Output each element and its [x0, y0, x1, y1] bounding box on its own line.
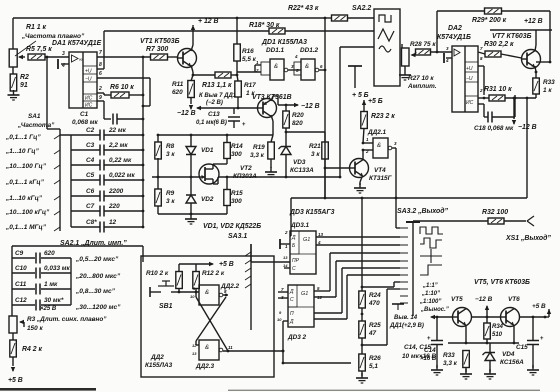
node DD2.1 in1	[362, 142, 365, 145]
wire С5 right	[104, 179, 143, 181]
wire C1 left	[104, 118, 111, 120]
wire C18 riser	[514, 95, 516, 117]
svg-text:С8*: С8*	[86, 219, 97, 226]
wire tap2 up	[386, 289, 388, 345]
wire dur frame top	[12, 245, 143, 247]
wire R4 bottom	[12, 357, 14, 366]
wire C1 right	[117, 118, 143, 120]
node out rail	[526, 97, 529, 100]
svg-text:4: 4	[445, 58, 449, 63]
svg-text:300: 300	[231, 151, 242, 158]
svg-text:Д: Д	[289, 289, 294, 295]
capacitor С7	[100, 206, 104, 217]
wire cap left bus	[70, 135, 72, 227]
resistor R7	[151, 54, 168, 60]
wire row135	[158, 134, 273, 136]
svg-text:ДД2: ДД2	[150, 354, 164, 361]
svg-text:R12 2 к: R12 2 к	[202, 270, 225, 277]
resistor R12	[193, 272, 200, 289]
common bar below SA2.2	[348, 65, 362, 67]
resistor R24	[359, 291, 366, 308]
wire pulse into DD3.1	[290, 235, 291, 237]
node -12 row	[486, 316, 489, 319]
wire SA1 common riser	[46, 57, 48, 129]
wire R16 bottom	[236, 61, 238, 75]
wire С10 right	[41, 272, 71, 274]
wire VT3 em row2	[277, 96, 279, 105]
potentiometer R1	[9, 49, 17, 67]
svg-text:КС156А: КС156А	[500, 359, 524, 366]
capacitor C15	[527, 341, 539, 345]
wire tap2	[362, 344, 387, 346]
ground C14	[431, 365, 443, 375]
svg-text:3,3 к: 3,3 к	[250, 152, 265, 159]
wire R14 bottom	[226, 158, 228, 164]
svg-text:„0,5...20 мкс”: „0,5...20 мкс”	[75, 256, 119, 263]
contact SA3.2-10	[400, 295, 408, 297]
wire DA1 pin2	[97, 92, 104, 94]
offpage arrow VT5 base	[430, 315, 435, 319]
contact SA3.2-1	[400, 227, 408, 229]
wire R16 drop	[236, 18, 238, 44]
potentiometer R27	[402, 48, 410, 66]
wire DD3.1 out2	[316, 244, 400, 246]
svg-text:−12 В: −12 В	[475, 296, 493, 303]
wire C1 to bus	[142, 95, 144, 119]
transistor VT2	[199, 164, 219, 184]
wire С3 right	[104, 149, 143, 151]
wire К выв7	[198, 107, 238, 109]
wire R21 bottom	[324, 159, 326, 168]
logic gate DD2.2	[199, 285, 223, 305]
svg-text:R9: R9	[166, 190, 175, 197]
svg-text:−U: −U	[85, 77, 92, 83]
wire mid row right	[218, 176, 340, 178]
svg-text:G1: G1	[303, 237, 310, 243]
wire R21 top	[324, 132, 326, 142]
wire С4 right	[104, 164, 143, 166]
svg-text:К Выв 7 ДД1: К Выв 7 ДД1	[199, 93, 237, 99]
wire R8 top	[157, 135, 159, 142]
svg-text:ИС: ИС	[85, 96, 93, 102]
logic gate DD2.3	[199, 340, 223, 360]
node R20 top	[285, 104, 288, 107]
svg-text:R17: R17	[244, 82, 256, 89]
svg-text:ДD1 К155ЛА3: ДD1 К155ЛА3	[261, 39, 307, 46]
svg-text:2: 2	[98, 86, 102, 92]
wire pin6 drop	[149, 78, 151, 106]
node feedback	[142, 56, 145, 59]
wire pin2 jog	[103, 93, 105, 95]
wire С11 right	[41, 288, 71, 290]
wire tap1	[362, 286, 394, 288]
node cap bus top	[142, 118, 145, 121]
svg-text:R16: R16	[242, 48, 254, 55]
wire R17 bottom	[237, 97, 239, 108]
switch SA2.2 box	[374, 9, 400, 86]
contact SA1-3	[54, 165, 60, 169]
svg-text:К155ЛА3: К155ЛА3	[145, 362, 173, 369]
wire VD2 top	[190, 177, 192, 195]
wire ladder5 riser	[341, 268, 343, 313]
svg-text:VD4: VD4	[502, 351, 515, 358]
svg-text:30 мк*: 30 мк*	[44, 297, 64, 304]
wire DD3.1 in2	[280, 243, 290, 245]
svg-text:С1: С1	[80, 111, 89, 118]
svg-text:R10 2 к: R10 2 к	[146, 270, 169, 277]
power -12V out stage	[485, 305, 489, 311]
svg-text:13: 13	[283, 255, 288, 260]
svg-text:С11: С11	[15, 281, 27, 288]
ground C15	[527, 365, 539, 375]
resistor R19	[268, 142, 275, 159]
switch SA1 line	[59, 129, 61, 231]
node С3 bus	[142, 149, 145, 152]
svg-text:5,5 к: 5,5 к	[242, 56, 257, 63]
ground below R2	[8, 90, 20, 100]
ground R27	[399, 70, 411, 80]
svg-text:0,068 мк: 0,068 мк	[72, 119, 98, 126]
diode VD1	[186, 147, 196, 155]
op-amp DA1	[69, 52, 97, 109]
wire SA3.1 top	[250, 244, 252, 262]
svg-text:620: 620	[172, 89, 183, 96]
wire R3-R4	[12, 333, 14, 340]
svg-text:С7: С7	[86, 203, 95, 210]
wire R27 bottom	[404, 66, 406, 70]
svg-text:П: П	[290, 311, 294, 317]
svg-text:47: 47	[368, 330, 377, 337]
svg-text:+ 5 Б: + 5 Б	[352, 92, 369, 99]
wire SA1 arm top	[47, 128, 60, 130]
wire ladder6	[347, 274, 400, 276]
transistor VT1	[178, 49, 197, 68]
wire С6 right	[104, 195, 143, 197]
wire R20 top	[285, 105, 287, 111]
node R16 top	[236, 17, 239, 20]
power -12V below R11	[189, 105, 193, 110]
svg-text:ИС: ИС	[85, 103, 93, 109]
svg-text:С9: С9	[15, 250, 24, 257]
wire R19 bottom	[270, 159, 272, 168]
resistor R10	[176, 272, 183, 289]
wire DD2.2 out	[223, 294, 228, 296]
power -12V VT3	[278, 103, 299, 107]
svg-text:С15: С15	[516, 344, 528, 351]
svg-text:+: +	[427, 336, 431, 342]
svg-text:SA2.2: SA2.2	[352, 5, 371, 12]
wire DD3.2 in1	[278, 291, 288, 293]
svg-text:R15: R15	[231, 190, 243, 197]
svg-text:R32 100: R32 100	[482, 209, 508, 216]
svg-text:DA2: DA2	[448, 25, 462, 32]
svg-text:VD3: VD3	[293, 159, 306, 166]
wire C13 stem	[233, 108, 235, 114]
svg-text:С18 0,068 мк: С18 0,068 мк	[474, 125, 514, 132]
wire R13 right	[231, 74, 237, 76]
power +5V R4	[11, 367, 15, 372]
wire DD3.2 pinD drop	[282, 321, 284, 363]
wire bottom row VD2	[158, 213, 227, 215]
wire R32 right	[504, 220, 526, 222]
svg-text:+: +	[540, 336, 544, 342]
wire VT6 emitter drop	[513, 325, 515, 343]
node DD2.3 out row	[282, 350, 285, 353]
contact SA3.1-4	[245, 276, 251, 280]
capacitor С10	[36, 268, 40, 279]
svg-text:ДД2.3: ДД2.3	[195, 363, 215, 370]
wire С11 left	[12, 288, 35, 290]
node R14 top	[226, 134, 229, 137]
node DD1.2 out	[324, 69, 327, 72]
switch SA3.2 common bar	[406, 221, 420, 223]
node R25/R26	[361, 344, 364, 347]
svg-text:150 к: 150 к	[27, 325, 43, 332]
wire cross A2	[195, 292, 197, 297]
wire R29 right riser	[549, 11, 551, 62]
svg-text:ДD3 К155АГ3: ДD3 К155АГ3	[289, 209, 335, 216]
svg-text:−12 В: −12 В	[301, 103, 320, 110]
contact SA3.2-7	[400, 274, 408, 276]
svg-text:&: &	[205, 290, 209, 296]
svg-text:10: 10	[277, 317, 282, 322]
wire pulse drop to DD3.1	[290, 198, 292, 236]
wire DA2 pin4	[446, 57, 452, 59]
node С4 bus	[142, 164, 145, 167]
svg-text:4: 4	[294, 54, 298, 59]
node VT4 base	[324, 167, 327, 170]
wire R28 left	[415, 52, 417, 55]
svg-text:10: 10	[190, 294, 195, 299]
svg-text:+5 В: +5 В	[532, 303, 546, 310]
power +5V out	[547, 309, 551, 314]
wire R23 bottom	[363, 128, 364, 143]
wire VT3 em row	[273, 95, 278, 97]
svg-text:12: 12	[192, 343, 197, 348]
svg-text:+U: +U	[466, 66, 473, 72]
svg-text:R7 300: R7 300	[146, 46, 168, 53]
svg-text:510: 510	[492, 332, 503, 338]
wire to DD1 pin1	[254, 65, 256, 72]
contact SA3.2-6	[400, 267, 408, 269]
wire dur arm	[142, 246, 144, 262]
svg-text:&: &	[305, 64, 309, 70]
wire R15 bottom	[226, 206, 228, 214]
wire DD2.1 out drop	[395, 148, 397, 198]
node pin6 bus	[142, 105, 145, 108]
wire DD3.1 R pin	[284, 267, 290, 269]
wire tap1 h	[394, 281, 400, 283]
resistor R33a	[533, 78, 540, 94]
svg-text:300: 300	[231, 198, 242, 205]
switch SA3.2 arm	[412, 222, 414, 316]
transistor VT3	[258, 99, 277, 118]
node R5/SA1	[46, 56, 49, 59]
wire VT5 emitter drop	[465, 325, 467, 343]
svg-text:2: 2	[479, 88, 483, 93]
icon output cross	[420, 249, 442, 263]
wire R31 row	[478, 97, 489, 99]
wire +5 stem	[354, 66, 356, 88]
svg-text:ИС: ИС	[466, 100, 474, 106]
wire DD3.2 to ladder4	[335, 261, 337, 297]
wire pulse stub	[396, 227, 400, 229]
svg-text:VT4: VT4	[374, 167, 386, 174]
wire R18 left	[104, 30, 269, 32]
contact SA1-1	[54, 135, 60, 139]
svg-text:„10...100 кГц”: „10...100 кГц”	[5, 209, 50, 216]
capacitor С5	[100, 175, 104, 186]
svg-text:„10...100 Гц”: „10...100 Гц”	[5, 163, 47, 170]
capacitor С12	[36, 300, 40, 311]
svg-text:820: 820	[292, 120, 303, 127]
svg-text:2,2 мк: 2,2 мк	[108, 142, 128, 149]
node mid/R15	[226, 176, 229, 179]
wire mid row left	[152, 176, 199, 178]
wire С7 left	[71, 210, 100, 212]
svg-text:VT2: VT2	[240, 165, 252, 172]
svg-text:R22* 43 к: R22* 43 к	[288, 5, 319, 12]
wire R26 bottom	[361, 371, 363, 376]
wire -12 drop	[513, 98, 515, 119]
capacitor C13	[228, 117, 240, 121]
svg-text:VT5, VT6 КТ603Б: VT5, VT6 КТ603Б	[474, 279, 530, 286]
svg-text:VT7 КТ603Б: VT7 КТ603Б	[492, 33, 532, 40]
offpage arrow -2V	[196, 106, 201, 110]
wire pin6 to bus	[143, 105, 150, 107]
svg-text:„1...10 кГц”: „1...10 кГц”	[5, 195, 43, 202]
node C14 top	[436, 316, 439, 319]
wire DD2.3 out	[223, 350, 283, 352]
wire VT7 coll up	[535, 30, 537, 45]
wire R11 bottom	[190, 97, 192, 104]
one-shot DD3.1	[290, 231, 316, 274]
svg-text:Выв. 14: Выв. 14	[394, 315, 418, 321]
contact SA3.1-5	[245, 284, 251, 288]
node R24/R25	[361, 313, 364, 316]
svg-text:G1: G1	[301, 291, 308, 297]
resistor R28	[416, 49, 431, 55]
wire DD2.1 pin2	[363, 149, 373, 151]
svg-text:5,1: 5,1	[369, 363, 378, 370]
resistor R23	[361, 112, 368, 129]
icon output pulse2	[420, 238, 442, 248]
wire VT4 em drop	[359, 182, 361, 185]
resistor R29	[485, 8, 502, 14]
icon square wave	[379, 15, 391, 22]
wire source drop	[217, 177, 219, 184]
svg-text:С: С	[290, 297, 294, 303]
wire VD3 to R21	[286, 131, 325, 133]
svg-text:С3: С3	[86, 142, 95, 149]
wire chain riser	[361, 198, 363, 291]
common bar DD3.1 pin1	[279, 239, 281, 249]
svg-text:„0,1...1 МГц”: „0,1...1 МГц”	[5, 224, 47, 231]
svg-text:„0,1...1 Гц”: „0,1...1 Гц”	[5, 134, 41, 141]
wire С7 right	[104, 210, 143, 212]
svg-text:R27 10 к: R27 10 к	[408, 75, 434, 82]
svg-text:3 к: 3 к	[311, 151, 320, 158]
wire sine row	[340, 46, 374, 48]
wire +5 link	[545, 316, 549, 318]
wire DD3.2 lower pin	[283, 320, 288, 322]
potentiometer R3	[9, 316, 17, 333]
node top rail sq	[324, 17, 327, 20]
contact SA1-4	[54, 180, 60, 184]
wire pulse line	[291, 197, 527, 199]
svg-text:R19: R19	[253, 144, 265, 151]
wire sine riser	[339, 47, 341, 177]
wire R6 right	[129, 94, 143, 96]
wire DD1.1 out	[288, 69, 301, 71]
wire R21 down	[324, 168, 326, 198]
wire VT3 coll down	[272, 121, 274, 135]
svg-text:(−2 В): (−2 В)	[206, 100, 223, 106]
capacitor С4	[100, 160, 104, 171]
wire R9 top	[157, 177, 159, 189]
wire DD3.2 in2	[278, 297, 288, 299]
node C15 top	[532, 316, 535, 319]
contact SA3.1-1	[245, 252, 251, 256]
wire R33a top	[535, 72, 537, 78]
node R13/R16/R17	[236, 74, 239, 77]
svg-text:R25: R25	[369, 322, 381, 329]
resistor R20	[283, 111, 290, 128]
contact SA3.1-2	[245, 260, 251, 264]
wire left frame	[12, 18, 14, 49]
power -12V right	[512, 120, 516, 125]
wire R34 top	[486, 317, 488, 323]
svg-text:4: 4	[317, 240, 321, 245]
transistor VT7	[522, 50, 541, 69]
wire C15 stem	[532, 317, 534, 340]
svg-text:+ 12 В: + 12 В	[198, 18, 219, 25]
svg-text:ДD3.1: ДD3.1	[290, 222, 310, 229]
wire R29 top left	[437, 10, 485, 12]
wire ladder5 stub	[314, 312, 342, 314]
svg-text:R3 „Длит. синх. плавно”: R3 „Длит. синх. плавно”	[27, 316, 107, 323]
svg-text:R11: R11	[172, 81, 184, 88]
wire VD4 top	[489, 343, 491, 352]
offpage bar К Выв 14	[392, 304, 404, 310]
svg-text:14: 14	[283, 263, 288, 268]
wire DD3.2 out2	[314, 296, 336, 298]
node R29 tap	[436, 51, 439, 54]
wire R17 top	[237, 75, 238, 81]
contact SA3.2-4	[400, 252, 408, 254]
wire R25-R26	[361, 338, 363, 354]
contact SA1-7	[54, 227, 60, 231]
transistor VT5	[453, 308, 472, 327]
resistor R4	[10, 340, 16, 357]
transistor VT4	[350, 159, 369, 178]
node pin8/R31	[483, 97, 486, 100]
wire C18 h2	[492, 116, 515, 118]
wire DA1 pin6	[97, 77, 150, 79]
wire sq bus up	[324, 18, 326, 70]
logic gate DD1.2	[294, 59, 319, 80]
svg-text:−12 В: −12 В	[177, 110, 196, 117]
power +12V	[191, 25, 195, 30]
wire VT7 emitter	[535, 66, 536, 72]
wiper arrow R3	[19, 320, 24, 324]
node R24 upper	[361, 286, 364, 289]
zener VD4	[483, 353, 496, 361]
svg-text:0,022 мк: 0,022 мк	[109, 172, 135, 179]
wire VD4 bottom	[489, 361, 491, 372]
wire VT4 emitter	[360, 177, 362, 182]
svg-text:1 мк: 1 мк	[44, 281, 58, 288]
